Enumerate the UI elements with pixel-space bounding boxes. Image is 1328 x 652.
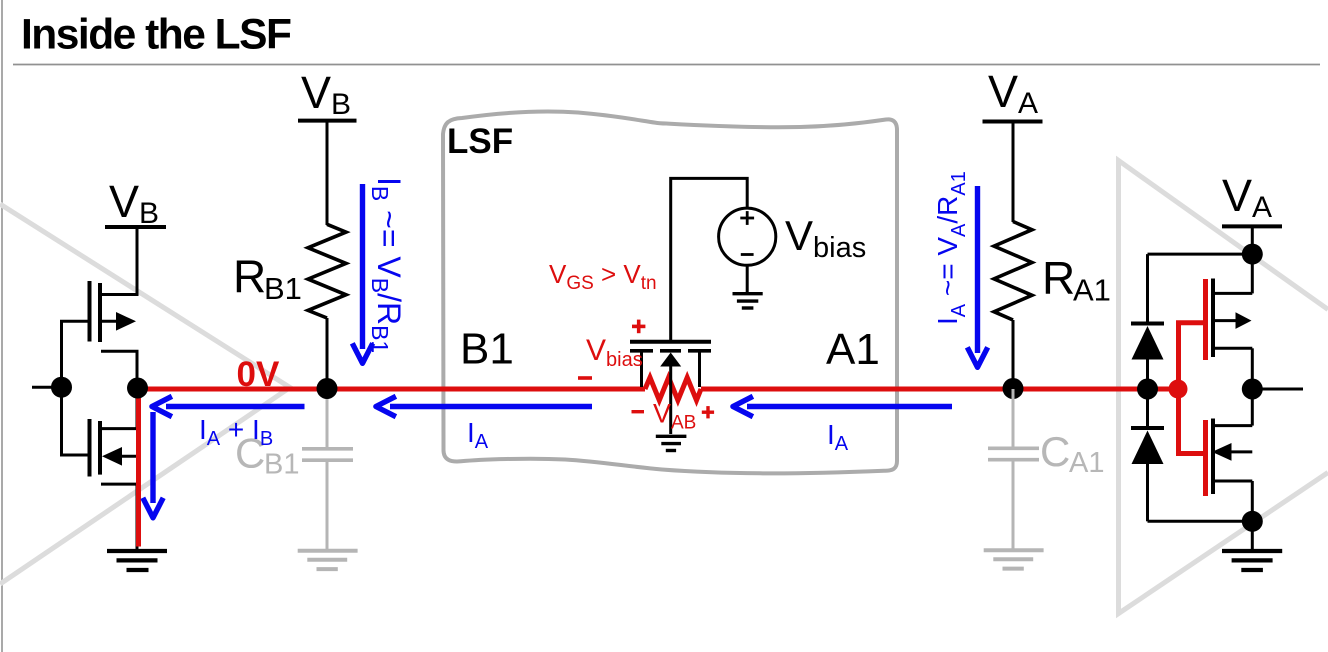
svg-text:IA ~= VA/RA1: IA ~= VA/RA1: [932, 171, 970, 325]
label - (source polarity): [578, 376, 592, 380]
capacitor CA1: [988, 389, 1039, 549]
svg-text:R: R: [1042, 252, 1075, 304]
supply VA (RA1 pull-up rail): [983, 120, 1043, 124]
svg-text:V: V: [301, 67, 331, 118]
resistor RB1: [308, 224, 346, 318]
wire Q1 drain to node: [136, 351, 139, 388]
wire top node to diode branch: [1148, 253, 1253, 256]
wire RB1 to 0V net: [326, 318, 329, 388]
transistor Q4 (A-side NMOS): [1211, 419, 1215, 495]
wire VB rail to RB1: [326, 121, 329, 225]
transistor Q5 (LSF pass FET): [630, 340, 711, 344]
wire VA rail to RA1: [1012, 122, 1015, 223]
supply VA (A-side driver): [1222, 224, 1282, 228]
capacitor CB1: [302, 389, 353, 549]
svg-text:B1: B1: [264, 449, 299, 481]
ground (B-side driver): [107, 551, 167, 570]
wire gate trunk (driver input): [62, 321, 88, 455]
svg-text:V: V: [785, 212, 813, 259]
supply VB (B-side driver): [105, 225, 166, 229]
current arrow IA (through RA1): [975, 186, 980, 353]
wire gate bars (A-side, red): [1203, 279, 1208, 360]
current arrow IB: [360, 184, 365, 349]
label - VAB +: [632, 410, 645, 413]
wire diode branch upper: [1146, 254, 1149, 323]
svg-text:V: V: [586, 334, 606, 367]
svg-text:V: V: [109, 176, 139, 227]
wire Q2 drain up to node: [136, 388, 139, 429]
node (RA1 / CA1 junction): [1003, 378, 1024, 399]
node (A-side ground junction): [1242, 511, 1263, 532]
node (driver input junction): [51, 377, 72, 398]
wire Q2 source to ground: [136, 484, 139, 549]
wire output stub: [1252, 388, 1303, 391]
svg-text:IA: IA: [467, 417, 489, 453]
svg-text:Inside the LSF: Inside the LSF: [21, 12, 291, 59]
current arrow IA+IB (into driver): [166, 404, 305, 409]
supply VB (RB1 pull-up rail): [298, 119, 357, 123]
ground (CA1, faded): [984, 550, 1044, 568]
wire Vbias to ground: [746, 265, 749, 292]
transistor Q2 (B-side NMOS): [90, 419, 139, 484]
node (VA supply junction): [1242, 244, 1263, 265]
resistor RAB (LSF FET on-resistance, red): [645, 378, 701, 401]
wire bottom rail to ground node: [1148, 520, 1253, 523]
buffer U1 (B-side driver, faded): [0, 204, 290, 584]
wire gate trunk (A-side, red): [1179, 323, 1204, 454]
buffer U2 (A-side driver, faded): [1119, 161, 1328, 614]
svg-text:IB ~= VB/RB1: IB ~= VB/RB1: [367, 177, 407, 353]
node (RB1 / CB1 junction): [317, 378, 338, 399]
diode D2 (from ground): [1146, 396, 1149, 427]
svg-text:A1: A1: [826, 325, 880, 374]
resistor RA1: [994, 222, 1032, 321]
svg-text:V: V: [988, 66, 1018, 117]
svg-text:C: C: [1040, 428, 1070, 475]
wire 0V net (red, B side): [138, 387, 645, 392]
diode D1 (to VA): [1131, 322, 1164, 326]
svg-text:B1: B1: [460, 325, 514, 374]
wire Q5 gate to Vbias: [671, 178, 748, 340]
svg-text:R: R: [233, 251, 266, 303]
transistor Q1 (B-side PMOS): [90, 281, 139, 351]
LSF block outline: [443, 112, 897, 474]
svg-text:LSF: LSF: [447, 122, 513, 161]
node 0V (driver output junction): [127, 378, 148, 399]
wire 0V net (red, A side): [701, 387, 1178, 392]
svg-text:bias: bias: [606, 349, 643, 371]
current arrow IA (A1 side): [747, 404, 952, 409]
svg-text:A1: A1: [1073, 273, 1111, 308]
wire Q5 bulk to ground: [669, 367, 672, 435]
svg-text:AB: AB: [671, 413, 696, 434]
label + (gate polarity): [632, 325, 645, 329]
ground (CB1, faded): [298, 551, 358, 569]
transistor Q3 (A-side PMOS): [1211, 279, 1215, 358]
svg-text:VGS > Vtn: VGS > Vtn: [549, 259, 657, 294]
svg-text:B: B: [331, 88, 351, 121]
node (red gate junction): [1169, 380, 1188, 399]
svg-text:B: B: [139, 197, 159, 230]
wire RA1 to 0V net: [1012, 320, 1015, 388]
current arrow IA (B1 side): [390, 404, 592, 409]
wire input stub: [32, 386, 62, 389]
ground (A-side driver): [1222, 551, 1282, 570]
wire to ground: [1251, 521, 1254, 549]
svg-text:IA + IB: IA + IB: [199, 414, 273, 450]
svg-text:IA: IA: [827, 419, 849, 455]
svg-text:A1: A1: [1069, 447, 1104, 479]
node (diode branch / 0V net): [1137, 379, 1158, 400]
node (A-side driver output): [1242, 379, 1263, 400]
svg-text:A: A: [1252, 191, 1272, 224]
source Vbias: [719, 208, 776, 265]
wire red to driver ground: [136, 387, 141, 547]
svg-text:B1: B1: [264, 271, 302, 306]
ground (Vbias): [733, 294, 763, 308]
ground (Q5 bulk): [656, 436, 687, 450]
svg-text:V: V: [653, 399, 671, 429]
svg-text:A: A: [1018, 87, 1038, 120]
wire VA to top node: [1251, 226, 1254, 254]
wire VB to Q1 source: [136, 227, 139, 296]
svg-text:V: V: [1222, 170, 1252, 221]
current arrow (down to ground): [150, 412, 155, 503]
svg-text:bias: bias: [813, 232, 866, 264]
